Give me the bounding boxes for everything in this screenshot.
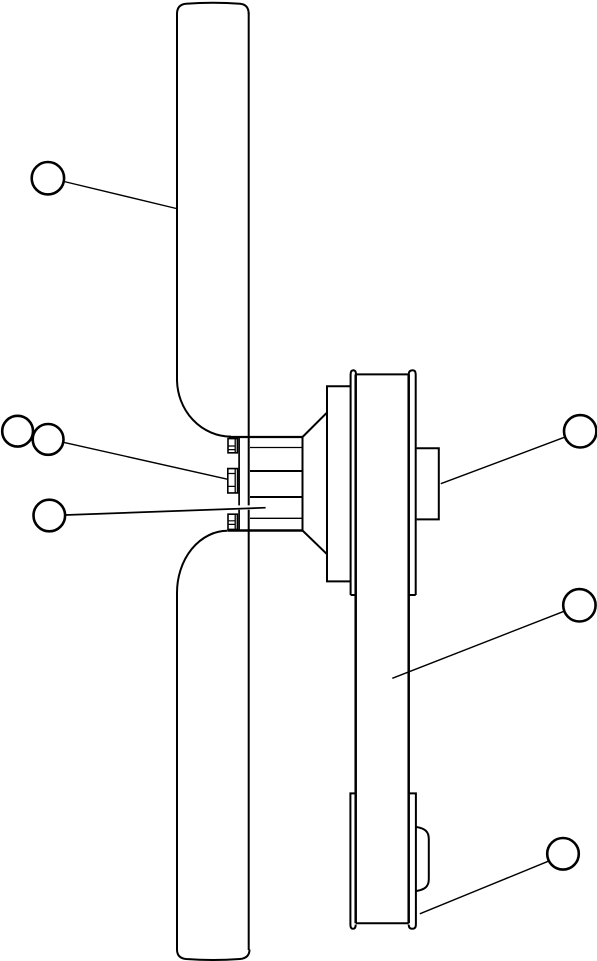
bolt middle: chamfer lines: [228, 474, 235, 487]
bottom fan blade top curve: [177, 531, 228, 593]
cone upper diagonal: [303, 413, 328, 437]
right shaft stub: [417, 448, 439, 519]
drum left wall: [354, 375, 357, 924]
bolt middle: head: [228, 469, 238, 493]
hub bottom line: [228, 529, 303, 531]
bolt top: chamfer lines: [228, 446, 235, 450]
bottom fan blade outline: [177, 593, 250, 960]
pulley right bar bottom step: [409, 594, 416, 596]
drum bottom line: [356, 922, 409, 924]
drum right wall: [407, 375, 410, 924]
bolt bottom: chamfer lines: [228, 521, 235, 525]
belt bump on right flange: [417, 827, 429, 891]
hub right edge: [302, 437, 304, 531]
hub internal line 1: [250, 447, 303, 449]
bolt top: inner vertical: [234, 439, 236, 453]
drum top line: [356, 373, 409, 375]
flange plate: [327, 386, 351, 581]
bolt bottom: head: [228, 514, 237, 529]
cone lower diagonal: [303, 531, 328, 555]
leader line to top blade: [64, 182, 176, 209]
top fan blade lower-left curve: [177, 379, 231, 437]
pulley right bar with top cap: [409, 370, 416, 595]
blade main vertical line (upper part): [248, 13, 250, 505]
bottom flange right: [409, 793, 416, 928]
bolt bottom: inner vertical: [234, 514, 236, 529]
callout circle right D: [564, 415, 596, 447]
leader line to hub interior: [66, 508, 266, 515]
hub internal line 4: [250, 517, 303, 519]
leader line to middle bolt: [63, 442, 228, 479]
callout circle top left: [32, 162, 64, 194]
callout circle left B: [33, 424, 64, 455]
hub top line: [229, 436, 303, 438]
hub internal line 2: [250, 470, 303, 472]
leader line to drum: [392, 611, 564, 678]
pulley left bar bottom step: [351, 594, 356, 596]
top fan blade outline: [177, 3, 249, 379]
pulley left bar with top cap: [351, 370, 356, 595]
bottom flange left: [350, 793, 355, 928]
leader line to bottom flange: [420, 861, 549, 914]
clamp plate upper edge line: [238, 437, 240, 505]
callout circle bottom F: [547, 838, 579, 870]
blade main vertical line (lower part): [248, 510, 250, 950]
clamp plate lower edge line: [238, 510, 240, 531]
callout circle right E: [563, 589, 595, 621]
bolt middle: inner vertical: [234, 469, 236, 493]
callout circle left C: [34, 500, 66, 532]
callout circle left A: [2, 416, 33, 447]
bolt top: head: [228, 439, 237, 453]
leader line to right stub: [441, 437, 565, 483]
hub internal line 3: [250, 496, 303, 498]
